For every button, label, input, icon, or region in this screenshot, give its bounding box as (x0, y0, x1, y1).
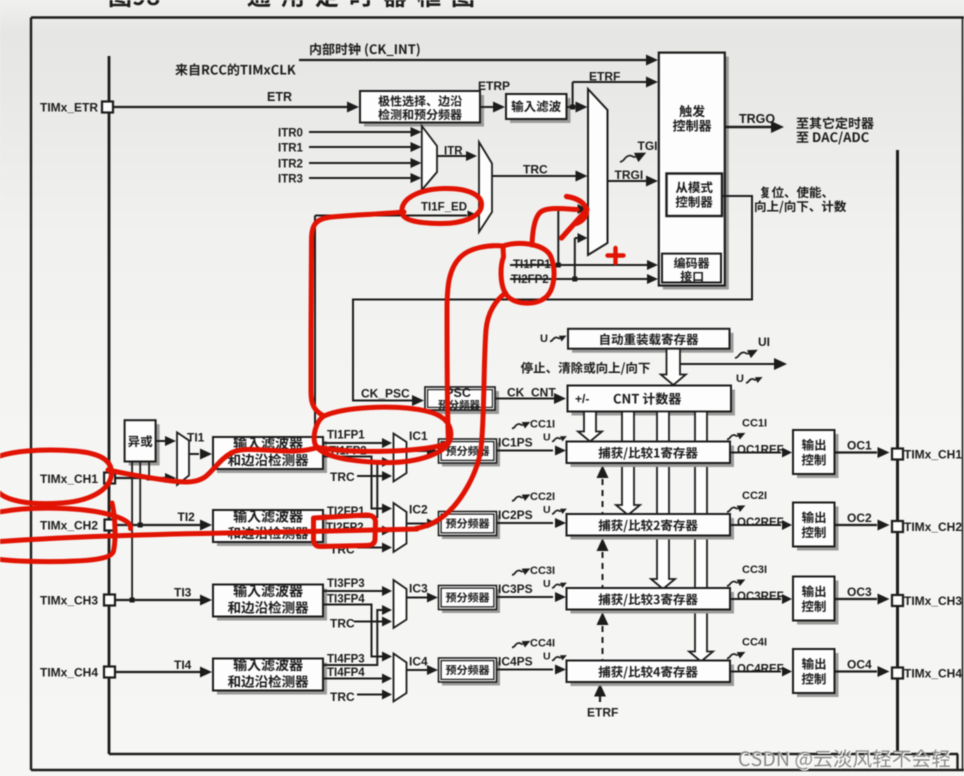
svg-text:IC2PS: IC2PS (498, 508, 533, 522)
svg-text:U: U (543, 432, 551, 444)
svg-text:IC3PS: IC3PS (498, 582, 533, 596)
svg-text:TI1F_ED: TI1F_ED (421, 202, 467, 214)
svg-text:ETRF: ETRF (589, 70, 620, 84)
svg-text:TI1: TI1 (187, 431, 205, 445)
svg-text:TI3: TI3 (174, 586, 192, 600)
svg-text:TIMx_CH1: TIMx_CH1 (40, 472, 98, 486)
svg-text:TI1FP1: TI1FP1 (327, 430, 365, 442)
svg-text:CC2I: CC2I (530, 491, 555, 503)
svg-text:IC3: IC3 (409, 582, 428, 596)
svg-text:TIMx_CH3: TIMx_CH3 (904, 594, 962, 608)
svg-text:OC2: OC2 (847, 511, 872, 525)
svg-text:ITR: ITR (444, 146, 463, 158)
svg-text:TRC: TRC (330, 617, 355, 631)
svg-text:OC3: OC3 (847, 585, 872, 599)
svg-text:+/-: +/- (575, 392, 589, 406)
svg-text:CK_CNT: CK_CNT (507, 386, 556, 400)
svg-text:TRGI: TRGI (615, 168, 644, 182)
svg-text:TI3FP4: TI3FP4 (327, 594, 365, 606)
svg-text:U: U (543, 578, 551, 590)
svg-text:TRC: TRC (330, 690, 355, 704)
svg-text:ITR2: ITR2 (278, 159, 303, 171)
svg-text:CK_PSC: CK_PSC (361, 387, 410, 401)
svg-text:U: U (543, 651, 551, 663)
svg-text:UI: UI (758, 335, 770, 349)
svg-text:U: U (540, 333, 548, 345)
svg-text:TIMx_CH1: TIMx_CH1 (904, 448, 962, 462)
svg-text:TI3FP3: TI3FP3 (327, 578, 365, 590)
svg-text:TRC: TRC (523, 163, 548, 177)
svg-text:TRC: TRC (330, 470, 355, 484)
svg-text:TIMx_CH2: TIMx_CH2 (40, 519, 98, 533)
svg-text:CC2I: CC2I (742, 490, 767, 502)
svg-text:TI4FP4: TI4FP4 (327, 667, 365, 679)
svg-text:OC1: OC1 (847, 439, 872, 453)
svg-text:TI4: TI4 (174, 658, 192, 672)
svg-text:ITR1: ITR1 (278, 143, 304, 155)
svg-text:CC3I: CC3I (742, 564, 767, 576)
svg-text:CC1I: CC1I (742, 418, 767, 430)
svg-text:IC2: IC2 (409, 503, 428, 517)
svg-text:TIMx_ETR: TIMx_ETR (40, 101, 98, 115)
svg-text:TIMx_CH2: TIMx_CH2 (904, 520, 962, 534)
svg-text:IC1: IC1 (409, 429, 428, 443)
svg-text:OC2REF: OC2REF (737, 517, 784, 529)
svg-text:IC4: IC4 (409, 655, 428, 669)
svg-text:TGI: TGI (638, 139, 658, 153)
svg-text:TI2FP2: TI2FP2 (511, 274, 549, 286)
svg-text:ITR0: ITR0 (278, 128, 303, 140)
svg-text:TIMx_CH4: TIMx_CH4 (904, 667, 962, 681)
svg-text:CC4I: CC4I (742, 637, 767, 649)
svg-text:OC1REF: OC1REF (737, 445, 784, 457)
svg-text:ETRF: ETRF (587, 706, 618, 720)
svg-text:TI2: TI2 (178, 510, 196, 524)
svg-text:TRGO: TRGO (739, 112, 775, 126)
svg-text:TI1FP1: TI1FP1 (513, 259, 551, 271)
svg-text:TIMx_CH3: TIMx_CH3 (40, 594, 98, 608)
svg-text:U: U (736, 373, 744, 385)
svg-text:CC1I: CC1I (530, 419, 555, 431)
svg-text:CC4I: CC4I (530, 638, 555, 650)
svg-text:TI4FP3: TI4FP3 (327, 654, 365, 666)
svg-text:CC3I: CC3I (530, 565, 555, 577)
svg-text:IC4PS: IC4PS (498, 655, 533, 669)
svg-text:U: U (543, 504, 551, 516)
svg-text:ETRP: ETRP (478, 79, 510, 93)
svg-text:OC3REF: OC3REF (737, 591, 784, 603)
svg-text:ITR3: ITR3 (278, 174, 303, 186)
svg-text:ETR: ETR (267, 90, 292, 104)
svg-text:OC4: OC4 (847, 658, 872, 672)
svg-text:IC1PS: IC1PS (498, 436, 533, 450)
svg-text:TIMx_CH4: TIMx_CH4 (40, 666, 98, 680)
svg-text:OC4REF: OC4REF (737, 664, 784, 676)
